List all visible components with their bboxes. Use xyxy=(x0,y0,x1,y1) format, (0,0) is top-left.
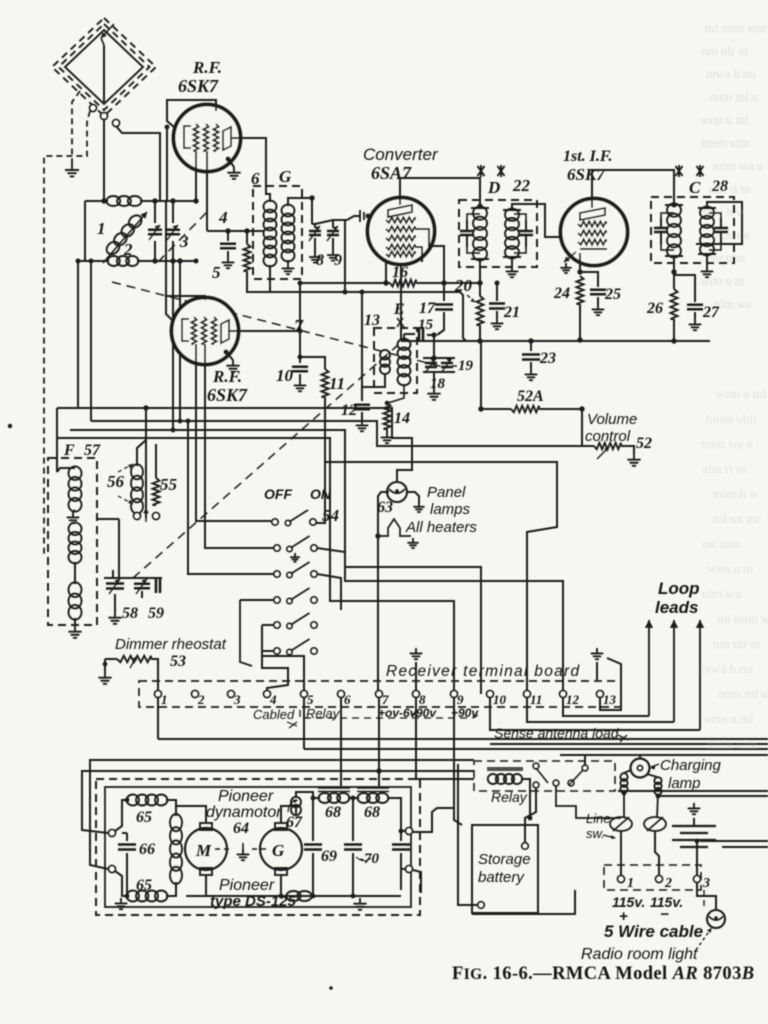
tube V4 grid rows xyxy=(578,221,606,226)
svg-text:Loop: Loop xyxy=(658,579,700,598)
wire battery bottom run xyxy=(472,890,575,914)
svg-text:68: 68 xyxy=(364,804,380,821)
wire lower bus xyxy=(85,260,109,262)
capacitor 71 (right) xyxy=(400,831,402,841)
loop shield dashed lead to ground xyxy=(72,91,80,164)
svg-text:6: 6 xyxy=(251,169,260,188)
svg-text:ml mim wnr: ml mim wnr xyxy=(705,21,768,35)
bus wire y408 xyxy=(57,408,412,482)
E trimmer tick xyxy=(397,318,404,327)
dynamotor centre ground xyxy=(242,843,244,849)
svg-text:alm ri m: alm ri m xyxy=(702,461,746,476)
svg-text:11: 11 xyxy=(530,692,542,707)
capacitor 17 xyxy=(443,283,445,301)
switch row 6 feed xyxy=(262,650,273,652)
tube V3 plate wire xyxy=(229,330,300,332)
wire 56/55 bottom to F box xyxy=(97,518,119,520)
svg-text:Dimmer rheostat: Dimmer rheostat xyxy=(115,636,227,653)
svg-text:Pioneer: Pioneer xyxy=(219,877,275,894)
svg-text:12: 12 xyxy=(341,402,357,419)
capacitor C primary xyxy=(661,213,674,250)
left edge risers xyxy=(56,408,58,472)
tube V2 plate bar xyxy=(388,205,412,217)
svg-text:mim wa n: mim wa n xyxy=(713,159,764,173)
panel lamp 63 xyxy=(387,482,407,502)
resistor 20 xyxy=(479,283,481,296)
loop-lead nest t12 xyxy=(563,698,649,716)
svg-text:19: 19 xyxy=(458,358,474,374)
ground above terminal 13 xyxy=(591,648,604,659)
svg-text:52A: 52A xyxy=(517,388,544,405)
svg-text:2: 2 xyxy=(664,876,672,891)
resistor 26 xyxy=(673,272,675,289)
svg-text:20: 20 xyxy=(454,276,473,295)
ground F bottom xyxy=(74,618,76,626)
capacitor 66 xyxy=(126,833,128,841)
switch row 4 feed xyxy=(240,599,273,601)
tube V1 pin wires xyxy=(195,151,197,201)
wire coil G top to node xyxy=(288,198,312,206)
generator G xyxy=(260,828,302,870)
tube V4 cathode pin xyxy=(579,253,581,272)
svg-text:Radio room light: Radio room light xyxy=(581,946,698,963)
coil 68 a xyxy=(318,788,350,792)
wire terminal 7 drop xyxy=(378,698,380,786)
svg-text:6: 6 xyxy=(344,692,351,707)
capacitor 69 xyxy=(312,798,314,841)
resistor 14 xyxy=(384,403,391,429)
loop antenna (diamond) xyxy=(52,18,156,116)
svg-text:4: 4 xyxy=(269,692,277,707)
tube V2 Converter 6SA7 xyxy=(368,198,435,265)
svg-text:4: 4 xyxy=(218,208,228,227)
volume control 52 xyxy=(581,409,583,446)
svg-text:1: 1 xyxy=(627,876,634,891)
junction dot 196/261 xyxy=(194,259,199,264)
svg-text:Relay: Relay xyxy=(306,706,341,721)
svg-text:leads: leads xyxy=(655,598,698,617)
ground coil C secondary xyxy=(706,254,708,266)
wires line switches xyxy=(620,831,622,875)
wire dynamotor out upper xyxy=(413,808,454,832)
caps 58 59 (padder pair) xyxy=(112,570,114,578)
wire pad caps top xyxy=(104,577,162,579)
switch row 1 xyxy=(272,519,278,525)
bus line right low xyxy=(700,840,768,842)
capacitor D secondary xyxy=(514,214,526,253)
loop lead wire 1 xyxy=(103,119,105,201)
svg-text:R.F.: R.F. xyxy=(192,58,222,77)
resistor 24 xyxy=(577,276,584,304)
loop lead wire 2 xyxy=(116,126,160,201)
wire coil C primary bottom xyxy=(673,256,675,272)
wire V3 plate riser x300 xyxy=(299,283,301,357)
svg-text:28: 28 xyxy=(711,178,728,195)
line switch fuse 1 xyxy=(610,817,632,831)
variable capacitor 3b xyxy=(172,201,174,223)
svg-text:mr ulm: mr ulm xyxy=(702,536,740,551)
coil 65 bottom xyxy=(127,891,168,902)
ground above battery xyxy=(688,803,701,814)
ground coil F1 xyxy=(73,510,75,512)
svg-text:57: 57 xyxy=(84,442,101,459)
svg-text:25: 25 xyxy=(604,286,621,303)
lamp squiggle left xyxy=(624,770,631,773)
switch row 5 feed xyxy=(262,624,273,626)
svg-text:lamps: lamps xyxy=(430,501,471,518)
svg-text:+90v: +90v xyxy=(451,706,479,720)
long bus wire y341 xyxy=(401,340,710,342)
svg-text:nlm wa: nlm wa xyxy=(714,297,752,311)
wire risers to mid bus xyxy=(77,261,79,408)
cable sheath dashed xyxy=(300,710,478,718)
svg-text:battery: battery xyxy=(478,869,525,886)
tube V4 grid arrow gnd xyxy=(564,252,576,262)
coil E large xyxy=(398,339,411,386)
svg-text:3: 3 xyxy=(702,876,710,891)
svg-text:Panel: Panel xyxy=(427,484,466,501)
wire lamp down to terminal 7 xyxy=(378,492,389,694)
relay coil xyxy=(487,768,523,770)
svg-text:55: 55 xyxy=(160,475,178,494)
svg-text:115v.: 115v. xyxy=(612,894,645,910)
capacitor 15 xyxy=(404,333,415,335)
ground above terminal 8 xyxy=(410,648,423,659)
motor M xyxy=(185,828,227,870)
tube V1 R.F. 6SK7 xyxy=(174,105,241,172)
tube V1 cathode ground xyxy=(229,160,234,167)
svg-text:E: E xyxy=(393,301,405,318)
switch row 3 right wire to t6 xyxy=(317,574,341,610)
tube V1 plate xyxy=(223,127,231,150)
wires generator top xyxy=(281,806,296,823)
wire coil D secondary to IF grid xyxy=(512,204,521,210)
IF transformer box C (dashed) xyxy=(651,197,734,263)
node 4 wire xyxy=(207,230,264,232)
svg-text:F: F xyxy=(63,442,75,459)
svg-text:FIG. 16-6.—RMCA Model AR 8703B: FIG. 16-6.—RMCA Model AR 8703B xyxy=(452,964,754,984)
loop dashed lead down page xyxy=(44,111,90,554)
svg-text:22: 22 xyxy=(512,176,531,195)
relay box (dashed) xyxy=(474,761,615,791)
svg-text:24: 24 xyxy=(553,285,570,302)
coil 68 b xyxy=(357,788,389,792)
svg-text:2: 2 xyxy=(197,692,205,707)
coil 56 (variable) xyxy=(131,464,143,513)
coil 67 xyxy=(291,797,301,815)
filter choke vertical xyxy=(170,814,182,884)
capacitor 23 xyxy=(530,341,532,351)
wire relay armature run xyxy=(556,786,621,818)
receiver terminal board box (dashed) xyxy=(139,681,621,707)
svg-text:Cabled: Cabled xyxy=(253,707,295,722)
svg-text:ml mim wnr: ml mim wnr xyxy=(717,611,768,626)
switch row 3 xyxy=(274,571,280,577)
coil G secondary xyxy=(282,205,295,262)
svg-text:wrm u ml: wrm u ml xyxy=(700,113,749,127)
svg-text:6SK7: 6SK7 xyxy=(207,385,248,405)
coil F1 xyxy=(69,466,82,511)
svg-text:14: 14 xyxy=(394,410,410,427)
svg-text:17: 17 xyxy=(419,300,436,317)
svg-text:sw.: sw. xyxy=(586,826,605,841)
bus wire y430 xyxy=(70,430,481,694)
svg-text:56: 56 xyxy=(107,472,125,491)
variable capacitor 9 xyxy=(327,231,339,235)
svg-text:wim u m: wim u m xyxy=(700,274,745,288)
wire relay to battery xyxy=(525,788,536,843)
svg-text:wrm u ml: wrm u ml xyxy=(703,711,754,726)
dynamotor terminals right xyxy=(406,828,413,835)
capacitor 21 xyxy=(496,283,498,301)
loop-lead nest t11 xyxy=(527,698,674,722)
wire bus left end riser (V2 cathode) xyxy=(400,264,402,341)
tube V2 plate lead to D xyxy=(400,178,480,206)
wire x196 tube pin to switch row 1 xyxy=(196,344,271,521)
tube V4 bottom bracket xyxy=(580,248,607,250)
svg-text:67: 67 xyxy=(286,814,303,831)
capacitor 10 xyxy=(298,355,303,360)
svg-text:R.F.: R.F. xyxy=(212,367,242,386)
svg-text:18: 18 xyxy=(430,376,446,392)
loop antenna centre arrow xyxy=(101,24,114,38)
wire x205 tube pin to switch row 2 xyxy=(205,344,273,548)
IF transformer box D (dashed) xyxy=(459,200,537,267)
tube V1 plate wire to coil 6 xyxy=(232,138,270,200)
wire charging lamp top xyxy=(639,755,641,759)
svg-text:nm ulr m: nm ulr m xyxy=(713,636,761,651)
wire trimmer tops to converter xyxy=(312,223,315,225)
svg-text:11: 11 xyxy=(329,374,345,393)
coil F3 xyxy=(69,582,82,619)
wire coil 6 bottom out (osc line y292) xyxy=(269,265,271,292)
svg-text:65: 65 xyxy=(136,809,152,826)
svg-text:59: 59 xyxy=(148,605,164,622)
wire front-end drop x173 extension xyxy=(172,261,174,430)
trimmer marks D xyxy=(478,165,485,177)
wire front-end drop x180 xyxy=(179,261,181,421)
gang dashed diagonal A short xyxy=(158,212,207,262)
svg-text:C: C xyxy=(689,178,701,197)
storage battery terminals xyxy=(522,843,528,849)
bus line right mid2 xyxy=(722,846,768,848)
wire terminal 6 drop xyxy=(340,698,342,786)
wire terminal 9 drop xyxy=(454,698,462,825)
dashed drop terminal 3 xyxy=(703,890,705,910)
tube V3 grid cap wire xyxy=(166,296,205,320)
junction dots xyxy=(101,198,106,203)
svg-text:66: 66 xyxy=(139,841,155,858)
variable capacitor 8 xyxy=(309,231,321,235)
dynamotor bottom coil xyxy=(286,891,311,901)
radio light dotted arrow xyxy=(696,930,710,950)
svg-text:5 Wire cable: 5 Wire cable xyxy=(604,922,703,941)
converter grid cap symbol xyxy=(360,210,364,222)
svg-text:6SK7: 6SK7 xyxy=(178,76,219,96)
svg-text:1: 1 xyxy=(97,219,106,238)
svg-text:OFF: OFF xyxy=(264,486,292,502)
storage battery box xyxy=(472,825,538,913)
svg-text:65: 65 xyxy=(136,877,152,894)
capacitor 5 xyxy=(227,231,229,241)
bus wire y438 xyxy=(58,438,454,694)
bus wire y421 xyxy=(91,421,560,446)
resistor 16 xyxy=(300,282,390,284)
wires dynamotor left xyxy=(115,800,128,831)
tube V4 plate lead to C xyxy=(592,170,674,208)
gang dashed diagonal B xyxy=(133,345,398,578)
tube V3 plate xyxy=(221,320,229,343)
coil 1 (slanted tuning coil) xyxy=(104,213,144,257)
antenna coupling coil xyxy=(106,196,141,206)
bus lines right mid xyxy=(618,790,768,792)
variable capacitor 3a xyxy=(154,201,156,223)
coil D primary xyxy=(471,208,489,259)
svg-text:7: 7 xyxy=(382,692,389,707)
ground (loop shield) xyxy=(65,164,79,176)
wire grid riser x167 xyxy=(166,127,168,201)
tube V1 grid cap wire xyxy=(167,100,216,127)
dashed arrows 56 xyxy=(118,464,133,472)
svg-text:9: 9 xyxy=(334,252,342,269)
svg-text:Converter: Converter xyxy=(363,145,439,164)
bus line y744 xyxy=(490,743,768,745)
switch row 2 ground xyxy=(290,553,300,562)
svg-text:6SK7: 6SK7 xyxy=(567,165,606,184)
wire to converter grid cap xyxy=(347,216,360,220)
wire 24 bottom to bus xyxy=(577,337,582,342)
wire osc connections xyxy=(403,334,405,340)
svg-text:10: 10 xyxy=(493,692,507,707)
svg-text:53: 53 xyxy=(170,653,186,670)
svg-text:8: 8 xyxy=(419,692,426,707)
ground coil G xyxy=(287,260,289,263)
svg-text:3: 3 xyxy=(233,692,241,707)
svg-text:hmm ulm: hmm ulm xyxy=(706,411,756,426)
wire riser to pad caps xyxy=(118,519,120,578)
svg-text:1st. I.F.: 1st. I.F. xyxy=(563,148,613,165)
wire terminal 8 drop xyxy=(416,698,474,779)
line switch fuse 2 xyxy=(644,817,666,831)
switch row 2 xyxy=(274,545,280,551)
capacitor 25 xyxy=(580,272,598,287)
svg-text:21: 21 xyxy=(503,304,520,321)
all heaters bump xyxy=(378,519,411,536)
svg-text:12: 12 xyxy=(566,692,580,707)
svg-text:dynamotor: dynamotor xyxy=(206,804,282,821)
tube V2 grid rows xyxy=(386,217,415,222)
coil 2 xyxy=(108,256,139,266)
svg-text:Storage: Storage xyxy=(478,851,531,868)
wire dynamotor out lower xyxy=(413,870,421,893)
svg-text:Charging: Charging xyxy=(660,757,722,774)
dashed arrow 20 xyxy=(467,295,475,302)
svg-text:13: 13 xyxy=(603,692,617,707)
loop leads arrow 2 xyxy=(673,620,675,722)
sense antenna nest t13 xyxy=(600,658,621,710)
loop antenna inner lead xyxy=(103,45,105,104)
svg-text:G: G xyxy=(272,841,285,860)
svg-text:control: control xyxy=(585,428,631,445)
svg-text:5: 5 xyxy=(212,263,221,282)
wire 56/55 tops xyxy=(137,408,146,466)
svg-text:10: 10 xyxy=(276,366,294,385)
volume control arrow xyxy=(597,447,609,459)
tube V3 grids xyxy=(191,317,196,344)
charging lamp xyxy=(631,759,650,778)
svg-text:All heaters: All heaters xyxy=(405,519,477,536)
svg-text:num h w: num h w xyxy=(713,486,759,501)
switch row 6 xyxy=(274,648,280,654)
svg-text:26: 26 xyxy=(646,300,663,317)
wire coil C secondary out xyxy=(707,202,716,208)
resistor (coil-6 grid) xyxy=(246,231,248,244)
dynamotor inner box xyxy=(105,787,411,907)
wire grid riser x166 to V3 xyxy=(165,201,167,296)
tube V4 1st IF 6SK7 xyxy=(561,199,628,266)
switch row 5 xyxy=(274,622,280,628)
wire 13 riser xyxy=(361,292,363,387)
svg-text:Relay: Relay xyxy=(491,789,528,805)
coil E small xyxy=(380,350,390,374)
wire terminal 1 drop xyxy=(157,698,159,739)
scan speck bottom xyxy=(329,986,333,990)
bus line y755 xyxy=(560,754,768,756)
wire 68 joins xyxy=(313,797,320,799)
bus line y739 xyxy=(158,738,768,740)
scan speck left margin xyxy=(8,424,12,428)
resistor 11 xyxy=(300,357,325,369)
wire x146 riser xyxy=(145,408,147,518)
coil C secondary xyxy=(698,208,716,254)
svg-text:52: 52 xyxy=(636,435,652,452)
svg-text:15: 15 xyxy=(418,317,434,333)
trimmer marks C xyxy=(676,165,683,177)
oscillator box E (dashed) xyxy=(374,328,417,393)
svg-text:D: D xyxy=(487,178,500,197)
tube V1 cathode bracket xyxy=(184,126,191,148)
wires motor top xyxy=(176,806,206,823)
relay coil wires xyxy=(521,779,530,818)
wire 67 top xyxy=(296,792,313,798)
loop-lead nest t10 xyxy=(490,698,700,730)
svg-text:wrm u ml: wrm u ml xyxy=(716,386,767,401)
wire terminal 5 drop xyxy=(303,698,305,749)
svg-text:nlm wa: nlm wa xyxy=(702,586,741,601)
bus line y760 to dynamotor lower terminal xyxy=(90,760,474,869)
gang dashed diagonal A xyxy=(112,282,447,368)
wire node to trimmers xyxy=(311,198,313,224)
svg-text:64: 64 xyxy=(233,820,249,837)
tube V3 R.F. 6SK7 xyxy=(172,298,239,365)
coil 1 arrow xyxy=(103,212,147,263)
wire terminal 3 column xyxy=(696,841,698,875)
loop leads arrow 1 xyxy=(648,620,650,716)
svg-text:Volume: Volume xyxy=(587,411,637,428)
svg-text:6SA7: 6SA7 xyxy=(371,163,412,183)
ground 66/65 xyxy=(115,898,128,909)
wire x188 drop to switch row 3 xyxy=(188,421,273,574)
loop leads arrow 3 xyxy=(699,620,701,730)
wire coil D primary bottom xyxy=(479,259,481,283)
svg-text:13: 13 xyxy=(364,312,380,329)
dynamotor outer box (dashed) xyxy=(96,779,420,915)
svg-text:−: − xyxy=(660,906,669,923)
svg-text:ml un mr: ml un mr xyxy=(713,511,761,526)
loop antenna terminals xyxy=(90,105,97,112)
svg-text:1: 1 xyxy=(161,692,168,707)
svg-text:8: 8 xyxy=(316,252,324,269)
